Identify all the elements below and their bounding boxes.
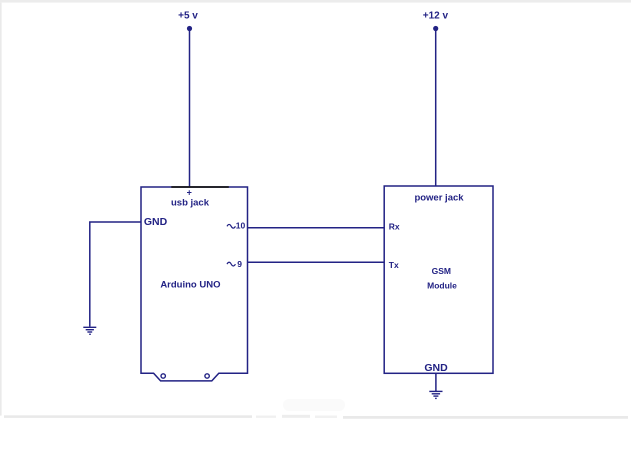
svg-text:Rx: Rx (389, 222, 400, 232)
GSM module box (384, 186, 493, 373)
node +5v dot (187, 26, 192, 31)
wire ~10 to Rx (248, 227, 385, 229)
svg-text:Tx: Tx (389, 260, 399, 270)
pin ~9 label tilde (227, 262, 235, 266)
wire +12v to power jack (435, 29, 437, 187)
wire ~9 to Tx (248, 261, 385, 263)
svg-text:+12 v: +12 v (423, 11, 449, 22)
page frame bottom line middle faint segments (256, 416, 276, 418)
arduino mounting hole left (161, 374, 165, 378)
svg-text:Arduino UNO: Arduino UNO (160, 280, 220, 291)
node +12v dot (433, 26, 438, 31)
wire +5v to usb jack (189, 29, 191, 188)
svg-text:GND: GND (424, 362, 448, 374)
svg-text:+: + (187, 187, 192, 197)
svg-text:power jack: power jack (414, 193, 464, 204)
svg-text:usb jack: usb jack (171, 197, 210, 208)
ground symbol left (83, 327, 96, 334)
wire GSM GND to ground (435, 373, 437, 391)
svg-text:10: 10 (236, 220, 246, 230)
svg-text:Module: Module (427, 280, 457, 290)
faint watermark remnant (283, 399, 345, 411)
svg-text:GSM: GSM (432, 266, 451, 276)
page frame top band (0, 0, 631, 3)
arduino UNO board outline (141, 187, 248, 381)
page frame bottom line left segment (4, 415, 252, 418)
svg-text:9: 9 (237, 259, 242, 269)
svg-text:GND: GND (144, 216, 168, 228)
ground symbol right (429, 391, 442, 398)
wire GND arduino to ground (90, 222, 141, 327)
arduino top edge dark segment (171, 186, 229, 188)
svg-text:+5 v: +5 v (178, 11, 198, 22)
arduino mounting hole right (205, 374, 209, 378)
pin ~10 label tilde (227, 224, 235, 228)
page frame left line (0, 3, 2, 416)
page frame bottom line right segment (343, 416, 628, 419)
